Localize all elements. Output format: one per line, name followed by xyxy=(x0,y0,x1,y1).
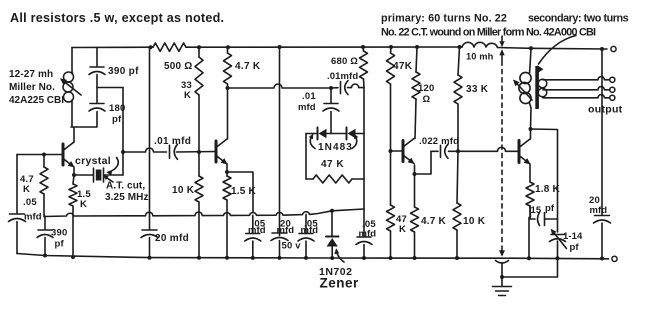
node: rail dot 680 xyxy=(361,45,365,49)
label 3.25 MHz xyxy=(105,192,149,203)
label 47 K (limiter) xyxy=(321,159,344,170)
wire: diode row xyxy=(306,133,364,135)
svg-text:.05: .05 xyxy=(23,197,37,208)
label A.T. cut, xyxy=(106,181,145,192)
label .05 (left) xyxy=(23,197,37,208)
svg-text:1.8 K: 1.8 K xyxy=(535,184,560,195)
node: Q4 base junction dot xyxy=(456,149,460,153)
label K (Q1 1.5K) xyxy=(80,199,87,210)
svg-text:All resistors .5 w, except as: All resistors .5 w, except as noted. xyxy=(10,11,224,25)
wire: left bias branch to ground rail xyxy=(16,222,18,254)
svg-text:K: K xyxy=(23,184,30,195)
resistor 500 ohm in top rail xyxy=(153,43,186,51)
label Miller No. xyxy=(9,82,55,93)
label K (Q2 33K) xyxy=(184,90,191,101)
svg-text:20 mfd: 20 mfd xyxy=(155,233,189,244)
svg-text:390 pf: 390 pf xyxy=(108,66,139,77)
label ohm (120) xyxy=(423,94,431,105)
capacitor 1-14 pf trimmer xyxy=(550,229,567,257)
label 20 mfd (first) xyxy=(155,233,189,244)
wire: left bias branch down xyxy=(16,155,18,214)
node: Q2 collector feedback dot xyxy=(226,86,230,90)
arrow: 1N483 right paren pointer xyxy=(352,134,358,148)
wire: x364 line to bus xyxy=(363,179,365,209)
inductor L1 12-27mh variable coil xyxy=(63,72,74,127)
label 10 K (Q4) xyxy=(463,216,486,227)
wire: .05 bypass left drop xyxy=(252,215,254,233)
svg-text:mfd: mfd xyxy=(301,225,319,236)
symbol: tuning axis bottom arc xyxy=(496,261,509,264)
label 1-14 xyxy=(563,231,583,242)
wire: 20mfd 50v to ground rail xyxy=(279,241,281,258)
svg-text:mfd: mfd xyxy=(298,102,316,113)
wire: .05 bypass right drop xyxy=(305,214,307,233)
terminal: ground rail end xyxy=(612,256,617,261)
svg-text:10 K: 10 K xyxy=(172,185,195,196)
capacitor .01 mfd (to diodes) xyxy=(323,88,339,134)
svg-text:.01mfd: .01mfd xyxy=(327,71,358,82)
wire: Q2 emitter node xyxy=(226,164,228,172)
node: ground rail junction dot xyxy=(362,256,366,260)
label K (Q1 base) xyxy=(23,184,30,195)
label .01 mfd (coupling) xyxy=(154,136,191,147)
node: rail dot 33K divider xyxy=(458,45,462,49)
capacitor .05 mfd (left bias) xyxy=(9,214,26,222)
resistor 4.7K (Q3 emitter) xyxy=(411,207,419,258)
label 15 xyxy=(531,205,542,216)
capacitor .05 mfd (bypass left) xyxy=(245,234,261,242)
capacitor .022 mfd xyxy=(431,144,457,158)
capacitor 20 mfd (first bypass) xyxy=(141,230,158,238)
label 680 ohm xyxy=(331,56,358,67)
svg-text:.01 mfd: .01 mfd xyxy=(154,136,191,147)
svg-text:mfd: mfd xyxy=(248,225,266,236)
arrow: crystal label pointer xyxy=(107,158,118,176)
resistor 1.8K (Q4 emitter) xyxy=(526,182,534,219)
ground symbol xyxy=(493,277,512,296)
wire: Q1 emitter to crystal node xyxy=(73,168,75,175)
wire: emitter/ground bus rail xyxy=(44,209,364,217)
svg-text:secondary: two turns: secondary: two turns xyxy=(528,13,629,25)
wire: crystal left lead xyxy=(74,174,93,176)
label 1.5 (Q1) xyxy=(77,189,91,200)
label 10 K (Q2) xyxy=(172,185,195,196)
wire: secondary tap 3 (hops x602) xyxy=(543,95,610,98)
label 33 K (Q4) xyxy=(466,84,489,95)
svg-text:K: K xyxy=(80,199,87,210)
svg-text:120: 120 xyxy=(418,83,434,94)
resistor 47K (Q3 bias upper) xyxy=(387,47,395,151)
arrow: 1N483 left paren pointer xyxy=(309,134,315,148)
diode 1N702 zener xyxy=(326,237,339,258)
wire: zener anode lead xyxy=(331,211,333,236)
label 120 xyxy=(418,83,434,94)
svg-text:No. 22 C.T. wound on Miller fo: No. 22 C.T. wound on Miller form No. 42A… xyxy=(381,27,596,39)
transistor Q4 output xyxy=(519,139,530,164)
label mfd (diode cap) xyxy=(298,102,316,113)
wire: tap from cap divider to x123 line xyxy=(97,87,123,89)
arrow: T1 variable arrow xyxy=(514,80,533,100)
node: ground rail junction dot xyxy=(556,256,560,260)
wire: Q2 emitter bypass corner xyxy=(227,172,253,213)
resistor 47K (limiter) xyxy=(306,175,364,183)
svg-text:3.25 MHz: 3.25 MHz xyxy=(105,192,149,203)
node: feedback-to-diode-cap dot xyxy=(329,86,333,90)
wire: Q3 emitter down xyxy=(414,165,416,207)
capacitor 390 pf (Q1 base) xyxy=(37,216,53,256)
wire: x602 branch down xyxy=(601,49,603,215)
resistor 120 ohm (Q3 collector) xyxy=(412,47,420,139)
resistor 1.5K (Q1 emitter) xyxy=(69,175,77,257)
capacitor 180 pf (divider bottom) xyxy=(89,104,105,112)
node: ground rail junction dot xyxy=(389,256,393,260)
label mfd (output cap) xyxy=(590,205,608,216)
svg-text:Zener: Zener xyxy=(320,276,360,291)
label 1N483 xyxy=(318,142,353,153)
svg-text:.022 mfd: .022 mfd xyxy=(419,136,459,147)
diode 1N483 right xyxy=(347,128,356,140)
node: ground rail junction dot xyxy=(148,256,152,260)
node: base divider junction dot xyxy=(42,153,46,157)
label 4.7 (Q1 base) xyxy=(20,174,34,185)
wire: x149 B+ branch down (hops other wires) xyxy=(149,47,151,229)
capacitor 390 pf (divider top) xyxy=(89,67,105,75)
wire: 390pf branch from rail xyxy=(96,47,98,66)
label 47K (Q3 upper) xyxy=(393,61,413,72)
wire: secondary tap 2 (hops x602) xyxy=(543,87,610,90)
inductor choke 10 mh in top rail xyxy=(462,42,498,47)
node: ground rail junction dot xyxy=(455,256,459,260)
label pf (15pf) xyxy=(545,203,555,214)
svg-text:output: output xyxy=(588,104,623,116)
capacitor 20 mfd 50v xyxy=(271,233,288,241)
symbol: tuning axis bottom arrow xyxy=(500,246,505,256)
terminal: B+ top right xyxy=(611,46,616,51)
label .05 (x364) xyxy=(362,219,376,230)
svg-text:K: K xyxy=(184,90,191,101)
wire: Q4 emitter down xyxy=(529,165,531,182)
node: rail dot 47K upper xyxy=(389,45,393,49)
node: rail dot x279 xyxy=(278,45,282,49)
svg-text:4.7 K: 4.7 K xyxy=(421,216,446,227)
label 20 (output cap) xyxy=(589,195,600,206)
svg-text:4.7 K: 4.7 K xyxy=(235,61,261,72)
svg-text:mfd: mfd xyxy=(359,229,377,240)
svg-text:12-27 mh: 12-27 mh xyxy=(9,69,53,80)
transistor Q2 amplifier xyxy=(216,139,227,164)
node: rail dot 33K xyxy=(197,45,201,49)
node: ground rail junction dot xyxy=(278,256,282,260)
label .01mfd (feedback) xyxy=(327,71,358,82)
diode 1N483 left xyxy=(318,128,327,140)
node: Q2 base junction dot xyxy=(197,150,201,154)
wire: primary bottom lead xyxy=(530,103,532,129)
label mfd (x364) xyxy=(359,229,377,240)
svg-text:15: 15 xyxy=(531,205,542,216)
node: ground rail junction dot xyxy=(413,256,417,260)
node: rail dot 120ohm xyxy=(415,45,419,49)
svg-text:33 K: 33 K xyxy=(466,84,489,95)
svg-text:10 mh: 10 mh xyxy=(466,52,494,62)
wire: top supply rail (left of choke) xyxy=(72,46,462,49)
crystal Y1 xyxy=(94,168,104,182)
label mfd (left) xyxy=(24,212,42,223)
arrow: annotation pointer to T1 xyxy=(538,36,577,73)
svg-text:390: 390 xyxy=(51,228,67,239)
resistor 47K (Q3 bias lower) xyxy=(387,151,395,258)
node: Q3 emitter branch dot xyxy=(413,172,417,176)
svg-text:Miller No.: Miller No. xyxy=(9,82,55,93)
svg-text:47K: 47K xyxy=(393,61,413,72)
wire: emitter resistor to ground drop xyxy=(529,206,531,258)
wire: crystal right lead xyxy=(104,174,123,176)
node: Q4 collector dot xyxy=(529,127,533,131)
symbol: tuning axis top arrow xyxy=(500,36,504,47)
label 180 xyxy=(109,103,125,114)
wire: Q2 collector to load xyxy=(226,88,229,139)
note: transformer secondary annotation xyxy=(528,13,629,25)
label crystal xyxy=(75,155,111,167)
label 500 ohm xyxy=(164,61,192,72)
label .05 (bypass left) xyxy=(252,219,266,230)
label Zener xyxy=(320,276,360,291)
label 1.8 K xyxy=(535,184,560,195)
node: rail dot x602 xyxy=(600,47,604,51)
svg-text:pf: pf xyxy=(570,242,580,253)
svg-text:Ω: Ω xyxy=(423,94,431,105)
label .01 (diode cap) xyxy=(302,91,316,102)
wire: emitter to .022 cap riser xyxy=(415,151,432,174)
terminal: output tap 2 xyxy=(610,87,615,92)
capacitor 20 mfd (output) xyxy=(594,216,611,224)
node: emitter-crystal junction xyxy=(72,173,76,177)
label 390 (base cap) xyxy=(51,228,67,239)
node: rail dot transformer primary xyxy=(529,46,533,50)
wire: x279 branch (hops feedback wire and ground bus) xyxy=(279,47,281,236)
label .05 (bypass right) xyxy=(304,219,318,230)
node: ground rail junction dot xyxy=(71,255,75,259)
label pf (base cap) xyxy=(55,239,65,250)
transistor Q3 amplifier xyxy=(403,139,414,164)
wire: primary top lead xyxy=(530,48,532,73)
wire: diode box right side xyxy=(363,134,365,180)
label mfd (50v cap) xyxy=(277,225,295,236)
terminal: output tap 1 xyxy=(610,77,615,82)
svg-text:primary: 60 turns No. 22: primary: 60 turns No. 22 xyxy=(381,13,507,25)
capacitor .01 mfd (Q2 coupling) xyxy=(170,144,178,159)
node: rail dot at 500ohm left xyxy=(149,45,153,49)
resistor 680 ohm xyxy=(360,47,368,88)
symbol: T1 core bar xyxy=(535,66,539,109)
svg-text:47 K: 47 K xyxy=(321,159,344,170)
svg-text:500 Ω: 500 Ω xyxy=(164,61,192,72)
resistor 10K (Q4 bias lower) xyxy=(453,151,461,257)
svg-text:mfd: mfd xyxy=(277,225,295,236)
node: Q3 base junction dot xyxy=(389,149,393,153)
svg-text:mfd: mfd xyxy=(24,212,42,223)
wire: feedback wire from Q2 collector (hops x278) xyxy=(228,84,365,88)
symbol: tuning axis top up-arrow xyxy=(500,50,504,60)
resistor 4.7K (Q2 collector load) xyxy=(224,47,232,88)
svg-text:10 K: 10 K xyxy=(463,216,486,227)
node: tap-to-Q2 junction dot xyxy=(121,150,125,154)
label 33 (Q2) xyxy=(181,80,192,91)
note: all-resistors annotation xyxy=(10,11,224,25)
node: Q2 emitter dot xyxy=(225,170,229,174)
svg-text:.01: .01 xyxy=(302,91,316,102)
wire: 20mfd output to ground rail xyxy=(601,223,603,259)
label .022 mfd xyxy=(419,136,459,147)
node: ground rail junction dot xyxy=(304,256,308,260)
wire: dashed tuning axis xyxy=(501,61,503,245)
resistor 33K (Q4 bias upper) xyxy=(454,47,462,151)
wire: Q4 collector riser xyxy=(530,129,532,139)
label 42A225 CBI xyxy=(9,95,64,106)
resistor 4.7K (Q1 base) xyxy=(40,155,48,217)
wire: top supply rail (right of choke) xyxy=(498,48,608,50)
wire: ground rail xyxy=(17,254,609,259)
label 4.7 K (Q2 load) xyxy=(235,61,261,72)
svg-text:1N483: 1N483 xyxy=(318,142,353,153)
resistor 1.5K (Q2 emitter) xyxy=(223,172,231,258)
arrow: zener label pointer xyxy=(335,249,344,262)
label 1.5 K (Q2) xyxy=(231,186,256,197)
label pf (180pf) xyxy=(112,114,122,125)
svg-text:crystal: crystal xyxy=(75,155,111,167)
node: ground rail junction dot xyxy=(600,257,604,261)
wire: divider bottom to junction xyxy=(71,112,97,128)
capacitor 15 pf xyxy=(530,213,558,226)
node: rail dot 4.7K xyxy=(226,45,230,49)
label 390 pf xyxy=(108,66,139,77)
node: zener bus dot xyxy=(330,209,334,213)
label mfd (bypass left) xyxy=(248,225,266,236)
label 47 (Q3 lower) xyxy=(396,214,407,225)
node: ground stub dot xyxy=(500,275,504,279)
node: ground rail junction dot xyxy=(197,256,201,260)
wire: between divider caps xyxy=(96,75,98,104)
resistor 10K (Q2 bias lower) xyxy=(195,152,203,258)
wire: collector branch to trimmer xyxy=(531,129,558,232)
node: ground rail junction dot xyxy=(527,256,531,260)
wire: Q3 base lead xyxy=(391,150,404,152)
wire: ground stub below rail xyxy=(502,258,558,277)
capacitor .05 mfd (bypass right) xyxy=(298,234,314,242)
node: ground rail junction dot xyxy=(330,256,334,260)
note: transformer winding annotation line 2 xyxy=(381,27,596,39)
svg-text:50 v: 50 v xyxy=(282,241,302,252)
svg-text:K: K xyxy=(399,224,406,235)
label mfd (bypass right) xyxy=(301,225,319,236)
capacitor .01 mfd (feedback) xyxy=(341,81,349,95)
wire: coupling wire crystal tap to Q2 base (hop at x149) xyxy=(123,148,216,152)
node: Q1 base wire xyxy=(17,154,63,156)
note: transformer primary annotation xyxy=(381,13,507,25)
label 20 (50v cap) xyxy=(280,219,291,230)
node: ground rail junction dot xyxy=(43,254,47,258)
capacitor .05 mfd (x364) xyxy=(356,209,372,258)
wire: .05 left to ground xyxy=(252,241,254,258)
wire: Q4 base wire (hops dashed axis) xyxy=(458,147,519,151)
svg-text:1-14: 1-14 xyxy=(563,231,583,242)
svg-text:42A225 CBI: 42A225 CBI xyxy=(9,95,64,106)
svg-text:pf: pf xyxy=(112,114,122,125)
wire: inductor branch vertical from rail xyxy=(71,48,73,73)
resistor 33K (Q2 bias upper) xyxy=(195,47,203,152)
label 12-27 mh xyxy=(9,69,53,80)
wire: x364 line down to diode box xyxy=(363,88,365,134)
svg-text:pf: pf xyxy=(545,203,555,214)
wire: 20mfd to ground rail xyxy=(149,238,151,258)
label 1N702 xyxy=(319,266,352,278)
svg-text:680 Ω: 680 Ω xyxy=(331,56,358,67)
wire: x123 tap line down to crystal xyxy=(122,88,124,176)
label 10 mh xyxy=(466,52,494,62)
wire: secondary tap 1 (hops x602) xyxy=(543,77,610,80)
label 4.7 K (Q3 emitter) xyxy=(421,216,446,227)
inductor T1 secondary winding xyxy=(538,79,547,98)
arrow: variable-inductor arrow through L1 xyxy=(61,79,82,95)
label K (Q3 lower) xyxy=(399,224,406,235)
node: ground rail junction dot xyxy=(225,256,229,260)
terminal: output tap 3 xyxy=(610,95,615,100)
label pf (trimmer) xyxy=(570,242,580,253)
inductor T1 primary winding xyxy=(519,72,531,103)
node: ground rail junction dot xyxy=(251,256,255,260)
svg-text:mfd: mfd xyxy=(590,205,608,216)
label 50 v xyxy=(282,241,302,252)
svg-text:pf: pf xyxy=(55,239,65,250)
transistor Q1 oscillator xyxy=(63,142,74,167)
wire: diode box left side xyxy=(305,134,307,180)
wire: .05 right to ground xyxy=(305,241,307,258)
arrow: A.T. cut pointer xyxy=(103,176,113,183)
label output xyxy=(588,104,623,116)
wire: Q1 collector to divider junction xyxy=(73,127,75,142)
